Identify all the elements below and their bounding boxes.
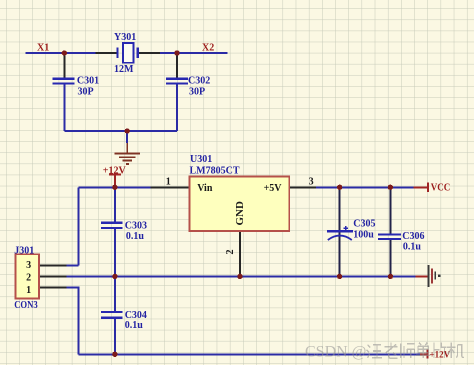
svg-text:C305: C305 xyxy=(353,219,375,230)
svg-text:Vin: Vin xyxy=(197,183,213,194)
svg-text:C303: C303 xyxy=(125,221,147,232)
svg-text:+12V: +12V xyxy=(103,166,127,177)
svg-text:C301: C301 xyxy=(77,76,99,87)
svg-text:1: 1 xyxy=(166,177,171,188)
svg-text:J301: J301 xyxy=(14,246,34,257)
svg-text:X2: X2 xyxy=(202,43,214,54)
svg-text:GND: GND xyxy=(234,201,246,226)
svg-text:30P: 30P xyxy=(78,86,94,97)
svg-text:1: 1 xyxy=(26,285,31,296)
svg-text:C306: C306 xyxy=(402,231,424,242)
svg-text:VCC: VCC xyxy=(431,183,451,194)
svg-text:CSDN @: CSDN @ xyxy=(305,344,366,361)
svg-text:2: 2 xyxy=(26,273,31,284)
svg-text:+5V: +5V xyxy=(264,183,283,194)
svg-text:30P: 30P xyxy=(189,86,205,97)
svg-text:+12V: +12V xyxy=(430,350,451,360)
svg-text:X1: X1 xyxy=(37,43,49,54)
svg-text:12M: 12M xyxy=(114,64,134,75)
svg-text:2: 2 xyxy=(225,250,236,255)
svg-text:LM7805CT: LM7805CT xyxy=(190,166,240,177)
svg-text:3: 3 xyxy=(309,177,314,188)
svg-text:0.1u: 0.1u xyxy=(403,242,422,253)
svg-text:Y301: Y301 xyxy=(114,32,136,43)
svg-text:3: 3 xyxy=(26,260,31,271)
svg-text:C302: C302 xyxy=(188,76,210,87)
svg-text:U301: U301 xyxy=(190,154,212,165)
svg-text:CON3: CON3 xyxy=(14,300,38,311)
svg-text:0.1u: 0.1u xyxy=(125,320,144,331)
svg-text:0.1u: 0.1u xyxy=(126,231,144,242)
svg-text:100u: 100u xyxy=(353,229,374,240)
